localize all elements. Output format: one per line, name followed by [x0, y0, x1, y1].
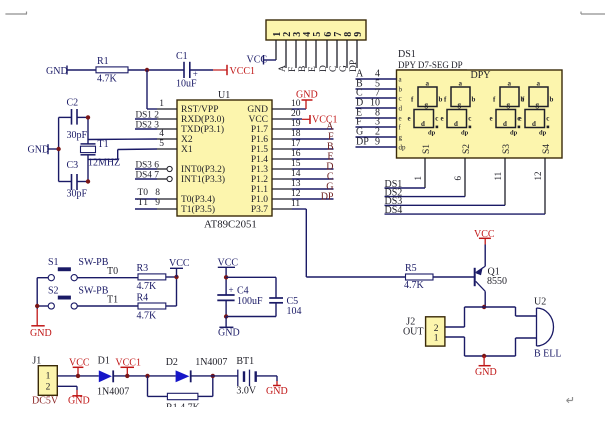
svg-text:8550: 8550	[487, 276, 507, 287]
svg-text:C1: C1	[176, 51, 188, 62]
svg-text:DS1: DS1	[398, 49, 416, 60]
svg-text:d: d	[399, 105, 403, 113]
svg-text:4.7K: 4.7K	[137, 281, 158, 292]
svg-text:8: 8	[155, 188, 160, 198]
svg-text:d: d	[532, 120, 536, 128]
svg-text:T1: T1	[138, 198, 149, 208]
svg-text:GND: GND	[218, 328, 240, 339]
svg-text:R1: R1	[97, 56, 109, 67]
svg-text:P3.7: P3.7	[251, 205, 268, 215]
svg-text:P1.0: P1.0	[251, 195, 268, 205]
svg-text:12: 12	[291, 189, 301, 199]
svg-text:DP: DP	[356, 137, 369, 148]
svg-text:R3: R3	[137, 263, 149, 274]
svg-text:GND: GND	[475, 367, 497, 378]
svg-text:A: A	[278, 65, 288, 72]
svg-text:dp: dp	[428, 130, 436, 137]
svg-text:GND: GND	[46, 66, 68, 77]
svg-text:P1.4: P1.4	[251, 155, 268, 165]
svg-text:SW-PB: SW-PB	[78, 257, 108, 268]
svg-text:11: 11	[291, 199, 300, 209]
svg-text:a: a	[508, 79, 512, 87]
svg-text:4.7K: 4.7K	[97, 74, 118, 85]
svg-text:1N4007: 1N4007	[97, 386, 129, 397]
svg-text:C2: C2	[67, 98, 79, 109]
svg-text:GND: GND	[30, 328, 52, 339]
svg-text:5: 5	[159, 139, 164, 149]
svg-text:P1.1: P1.1	[251, 185, 268, 195]
svg-text:X2: X2	[181, 135, 193, 145]
svg-text:P1.2: P1.2	[251, 175, 268, 185]
svg-text:INT1(P3.3): INT1(P3.3)	[181, 174, 225, 185]
svg-text:X1: X1	[181, 145, 193, 155]
svg-text:GND: GND	[28, 145, 50, 156]
svg-text:c: c	[546, 115, 549, 123]
svg-text:a: a	[537, 79, 541, 87]
svg-text:P1.6: P1.6	[251, 135, 268, 145]
svg-text:T1: T1	[107, 295, 118, 306]
svg-text:b: b	[439, 96, 443, 104]
svg-text:e: e	[399, 115, 402, 123]
svg-text:100uF: 100uF	[237, 296, 263, 307]
svg-text:T1: T1	[98, 139, 109, 150]
svg-text:U2: U2	[534, 296, 546, 307]
svg-text:12: 12	[533, 172, 543, 181]
svg-text:S1: S1	[422, 144, 432, 154]
svg-text:3.0V: 3.0V	[236, 385, 257, 396]
svg-text:11: 11	[493, 172, 503, 181]
svg-text:14: 14	[291, 169, 301, 179]
svg-text:S4: S4	[542, 144, 552, 154]
svg-text:e: e	[490, 115, 493, 123]
svg-text:dp: dp	[461, 130, 469, 137]
svg-text:C3: C3	[67, 160, 79, 171]
svg-text:T0(P3.4): T0(P3.4)	[181, 194, 215, 205]
svg-text:d: d	[503, 120, 507, 128]
svg-text:T0: T0	[107, 266, 118, 277]
svg-text:DC5V: DC5V	[32, 396, 59, 407]
svg-text:e: e	[408, 115, 411, 123]
svg-text:R5: R5	[405, 263, 417, 274]
svg-text:SW-PB: SW-PB	[78, 286, 108, 297]
svg-text:e: e	[519, 115, 522, 123]
svg-text:VCC1: VCC1	[312, 115, 338, 126]
svg-text:D2: D2	[166, 357, 178, 368]
svg-text:6: 6	[453, 176, 463, 181]
svg-text:9: 9	[375, 137, 380, 148]
svg-text:b: b	[472, 96, 476, 104]
svg-text:GND: GND	[296, 90, 318, 101]
svg-text:E: E	[308, 66, 318, 72]
svg-text:19: 19	[291, 119, 301, 129]
svg-text:DS2: DS2	[136, 120, 153, 130]
svg-text:OUT: OUT	[403, 327, 424, 338]
svg-text:+: +	[229, 285, 234, 295]
svg-text:a: a	[459, 79, 463, 87]
svg-text:2: 2	[46, 382, 51, 392]
svg-text:g: g	[507, 101, 511, 109]
svg-text:1: 1	[159, 99, 164, 109]
svg-text:13: 13	[291, 179, 301, 189]
svg-text:17: 17	[291, 139, 301, 149]
svg-text:DP: DP	[321, 191, 334, 202]
svg-text:DS3: DS3	[136, 160, 153, 170]
svg-text:5: 5	[312, 32, 323, 37]
svg-text:16: 16	[291, 149, 301, 159]
svg-text:RXD(P3.0): RXD(P3.0)	[181, 114, 225, 125]
svg-text:20: 20	[291, 109, 301, 119]
svg-text:30pF: 30pF	[67, 189, 88, 200]
svg-text:T1(P3.5): T1(P3.5)	[181, 204, 215, 215]
svg-text:S1: S1	[48, 257, 59, 268]
svg-text:VCC1: VCC1	[230, 66, 256, 77]
svg-text:a: a	[426, 79, 430, 87]
svg-text:J1: J1	[32, 355, 41, 366]
svg-text:e: e	[441, 115, 444, 123]
svg-text:c: c	[399, 95, 402, 103]
svg-text:B ELL: B ELL	[534, 349, 562, 360]
svg-text:DS1: DS1	[136, 110, 153, 120]
svg-text:dp: dp	[539, 130, 547, 137]
svg-text:U1: U1	[218, 90, 230, 101]
svg-text:DS4: DS4	[136, 170, 153, 180]
svg-text:GND: GND	[266, 386, 288, 397]
svg-text:D: D	[319, 65, 329, 72]
svg-text:10uF: 10uF	[176, 79, 197, 90]
svg-text:dp: dp	[510, 130, 518, 137]
svg-text:dp: dp	[399, 144, 407, 152]
svg-text:d: d	[421, 120, 425, 128]
svg-text:4.7K: 4.7K	[137, 311, 158, 322]
svg-text:S2: S2	[48, 286, 59, 297]
svg-text:P1.3: P1.3	[251, 165, 268, 175]
svg-text:1N4007: 1N4007	[195, 357, 227, 368]
svg-text:INT0(P3.2): INT0(P3.2)	[181, 164, 225, 175]
svg-text:4: 4	[159, 129, 164, 139]
svg-text:g: g	[399, 134, 403, 142]
svg-text:P1.7: P1.7	[251, 125, 268, 135]
svg-text:1: 1	[413, 176, 423, 181]
svg-text:VCC: VCC	[248, 115, 268, 125]
svg-text:2: 2	[434, 324, 439, 334]
svg-text:R4: R4	[137, 293, 149, 304]
svg-text:104: 104	[287, 306, 302, 317]
svg-text:d: d	[454, 120, 458, 128]
svg-text:1: 1	[434, 334, 439, 344]
svg-text:18: 18	[291, 129, 301, 139]
svg-text:G: G	[339, 65, 349, 72]
svg-text:DS4: DS4	[385, 205, 403, 216]
svg-text:15: 15	[291, 159, 301, 169]
svg-text:GND: GND	[68, 396, 90, 407]
svg-text:10: 10	[291, 99, 301, 109]
svg-text:D1: D1	[98, 355, 110, 366]
svg-text:B: B	[298, 66, 308, 72]
svg-text:30pF: 30pF	[67, 130, 88, 141]
svg-text:DPY: DPY	[471, 70, 491, 81]
svg-text:TXD(P3.1): TXD(P3.1)	[181, 124, 224, 135]
svg-text:c: c	[435, 115, 438, 123]
svg-text:b: b	[399, 86, 403, 94]
svg-text:1: 1	[46, 372, 51, 382]
svg-text:g: g	[458, 101, 462, 109]
svg-text:F: F	[288, 67, 298, 72]
svg-text:c: c	[468, 115, 471, 123]
svg-text:9: 9	[353, 32, 364, 37]
svg-text:S3: S3	[502, 144, 512, 154]
svg-text:VCC: VCC	[169, 258, 190, 269]
svg-text:4.7K: 4.7K	[404, 280, 425, 291]
svg-text:g: g	[425, 101, 429, 109]
svg-text:DPY D7-SEG DP: DPY D7-SEG DP	[398, 60, 463, 70]
svg-text:GND: GND	[247, 105, 268, 115]
svg-text:C: C	[329, 66, 339, 72]
svg-text:b: b	[550, 96, 554, 104]
svg-text:C5: C5	[287, 296, 299, 307]
svg-text:T0: T0	[138, 188, 149, 198]
svg-text:AT89C2051: AT89C2051	[204, 219, 257, 231]
svg-text:g: g	[536, 101, 540, 109]
svg-text:S2: S2	[462, 144, 472, 154]
svg-text:P1.5: P1.5	[251, 145, 268, 155]
svg-text:RST/VPP: RST/VPP	[181, 105, 219, 115]
svg-text:BT1: BT1	[236, 356, 254, 367]
